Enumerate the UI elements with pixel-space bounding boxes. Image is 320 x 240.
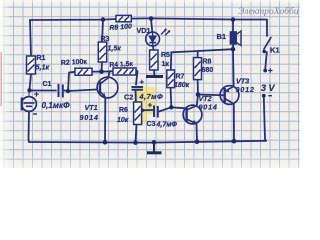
wire mic to bottom rail	[28, 112, 31, 143]
node rail VT3	[232, 139, 237, 144]
resistor R8b 680	[194, 58, 202, 80]
svg-text:B1: B1	[217, 32, 227, 41]
node A collector VT1	[99, 69, 104, 74]
svg-text:R7: R7	[176, 74, 185, 81]
svg-text:R3: R3	[101, 36, 110, 43]
node rail ground	[152, 140, 157, 145]
resistor R2	[75, 68, 92, 75]
wire C2 bottom to R6	[135, 90, 137, 102]
node R7/C3/VT2 base	[169, 105, 173, 109]
svg-text:ЭлектроХобби: ЭлектроХобби	[238, 6, 299, 17]
wire B1 bottom leg	[232, 44, 234, 49]
svg-text:C2: C2	[124, 93, 133, 102]
wire VT2 collector leg	[197, 95, 198, 106]
transistor VT2	[183, 105, 202, 124]
svg-text:R4 1,5к: R4 1,5к	[109, 61, 133, 69]
node R6/C3	[140, 108, 144, 112]
node mic/C1	[27, 88, 31, 92]
node top VD1	[149, 16, 154, 21]
speaker B1	[230, 31, 241, 46]
svg-text:R1: R1	[37, 55, 46, 62]
battery plus terminal	[263, 69, 267, 73]
VT2 emitter arrow	[192, 120, 197, 124]
svg-text:3 V: 3 V	[261, 83, 276, 93]
wire top rail mid segment	[131, 17, 151, 19]
wire left column top	[30, 20, 31, 56]
wire mic node to C1	[30, 90, 57, 92]
VD1 light arrows	[161, 30, 170, 36]
svg-text:9014: 9014	[199, 103, 218, 112]
wire battery bottom leg	[264, 98, 266, 141]
wire VT1 emitter to rail	[104, 98, 106, 143]
svg-text:VD1: VD1	[137, 26, 151, 35]
wire B1 top leg	[232, 20, 234, 32]
red margin line fragment	[0, 52, 2, 106]
node rail R6	[133, 140, 138, 145]
wire node B to VT3 base	[198, 94, 225, 97]
wire R3 bottom leg	[101, 62, 104, 72]
resistor R3	[98, 42, 106, 62]
capacitor C1	[59, 84, 63, 98]
label C3 plus	[148, 103, 152, 107]
VT1 emitter arrow	[102, 93, 106, 98]
resistor R8a top	[116, 15, 131, 21]
label C2 plus	[140, 80, 144, 84]
wire R4 to C2 top	[136, 71, 138, 85]
battery minus terminal	[262, 94, 266, 98]
wire R5 to ground	[153, 70, 155, 75]
resistor R1	[27, 56, 36, 74]
svg-text:0,1мкФ: 0,1мкФ	[42, 101, 71, 110]
wire VD1 to R5	[152, 46, 155, 50]
wire top rail right segment	[151, 18, 267, 36]
svg-text:R5: R5	[161, 52, 170, 59]
paper background	[0, 0, 300, 168]
wire C3 left leg	[142, 109, 153, 111]
yellow highlighter marks	[135, 87, 156, 124]
resistor R7	[167, 70, 175, 88]
wire R3 top leg	[102, 20, 103, 42]
wire row 52: R7 top to B1 node	[171, 49, 233, 52]
switch contact dot	[262, 50, 266, 54]
wire VT3 emitter up leg	[232, 49, 235, 86]
wire battery top leg	[265, 52, 267, 69]
wire R8b bottom to node B	[197, 80, 199, 95]
wire R1 to mic node	[30, 74, 32, 90]
svg-text:4,7мФ: 4,7мФ	[156, 122, 178, 129]
wire VT3 collector to rail	[233, 104, 235, 141]
wire node A to R4	[102, 70, 114, 72]
transistor VT3 (PNP)	[220, 86, 239, 105]
svg-text:R8: R8	[203, 59, 212, 66]
svg-text:1,5к: 1,5к	[108, 46, 122, 53]
svg-text:180к: 180к	[174, 82, 190, 89]
wire R2 left leg	[68, 72, 75, 91]
VT3 emitter arrow (points to base)	[225, 89, 230, 93]
capacitor C2	[132, 87, 144, 90]
svg-text:10к: 10к	[117, 117, 129, 124]
svg-text:C1: C1	[43, 81, 52, 88]
LED VD1	[146, 32, 160, 46]
svg-text:K1: K1	[270, 46, 280, 55]
mic plus sign	[34, 92, 39, 97]
battery minus label	[268, 95, 272, 97]
wire C1 to VT1 base	[65, 90, 97, 92]
svg-text:5,1к: 5,1к	[36, 63, 50, 72]
mic minus sign	[33, 113, 37, 115]
wire VT2 emitter to rail	[196, 124, 199, 142]
node B VT2 collector	[196, 92, 201, 97]
node top R3	[101, 17, 106, 22]
node top B1	[231, 17, 236, 22]
ground at bottom rail	[147, 142, 162, 152]
wire R7 top leg	[170, 52, 173, 70]
svg-text:R2 100к: R2 100к	[61, 59, 88, 67]
battery plus label	[268, 68, 272, 72]
resistor R6	[134, 102, 142, 125]
wire R8b top leg	[197, 51, 199, 57]
resistor R4	[113, 68, 136, 75]
resistor R5	[150, 50, 158, 70]
wire C3 to VT2 base	[159, 107, 186, 111]
svg-text:9012: 9012	[236, 85, 255, 94]
wire R7 bottom leg	[170, 88, 173, 108]
svg-text:9014: 9014	[80, 113, 99, 122]
node rail VT1 emitter	[103, 140, 108, 145]
svg-text:VT1: VT1	[85, 103, 98, 112]
node row52 B1	[231, 47, 236, 52]
wire R2 to node A	[92, 71, 102, 73]
wire bottom rail	[29, 141, 266, 143]
svg-text:680: 680	[202, 67, 214, 74]
svg-text:R6: R6	[119, 107, 128, 114]
node rail VT2	[195, 139, 200, 144]
transistor VT1	[97, 77, 118, 98]
wire top rail left segment	[30, 19, 116, 21]
ground under R5	[146, 75, 163, 78]
microphone BM1	[22, 91, 37, 117]
wire VD1 top leg	[151, 18, 152, 32]
switch K1 blade	[264, 37, 272, 50]
svg-text:C3: C3	[147, 121, 156, 128]
node base VT1 / R2	[66, 89, 70, 93]
svg-text:1к: 1к	[162, 61, 170, 68]
capacitor C3	[154, 106, 158, 118]
wire VT1 collector to node A	[108, 72, 109, 78]
wire R6 bottom to rail	[136, 125, 137, 143]
svg-text:4,7мФ: 4,7мФ	[139, 92, 164, 101]
